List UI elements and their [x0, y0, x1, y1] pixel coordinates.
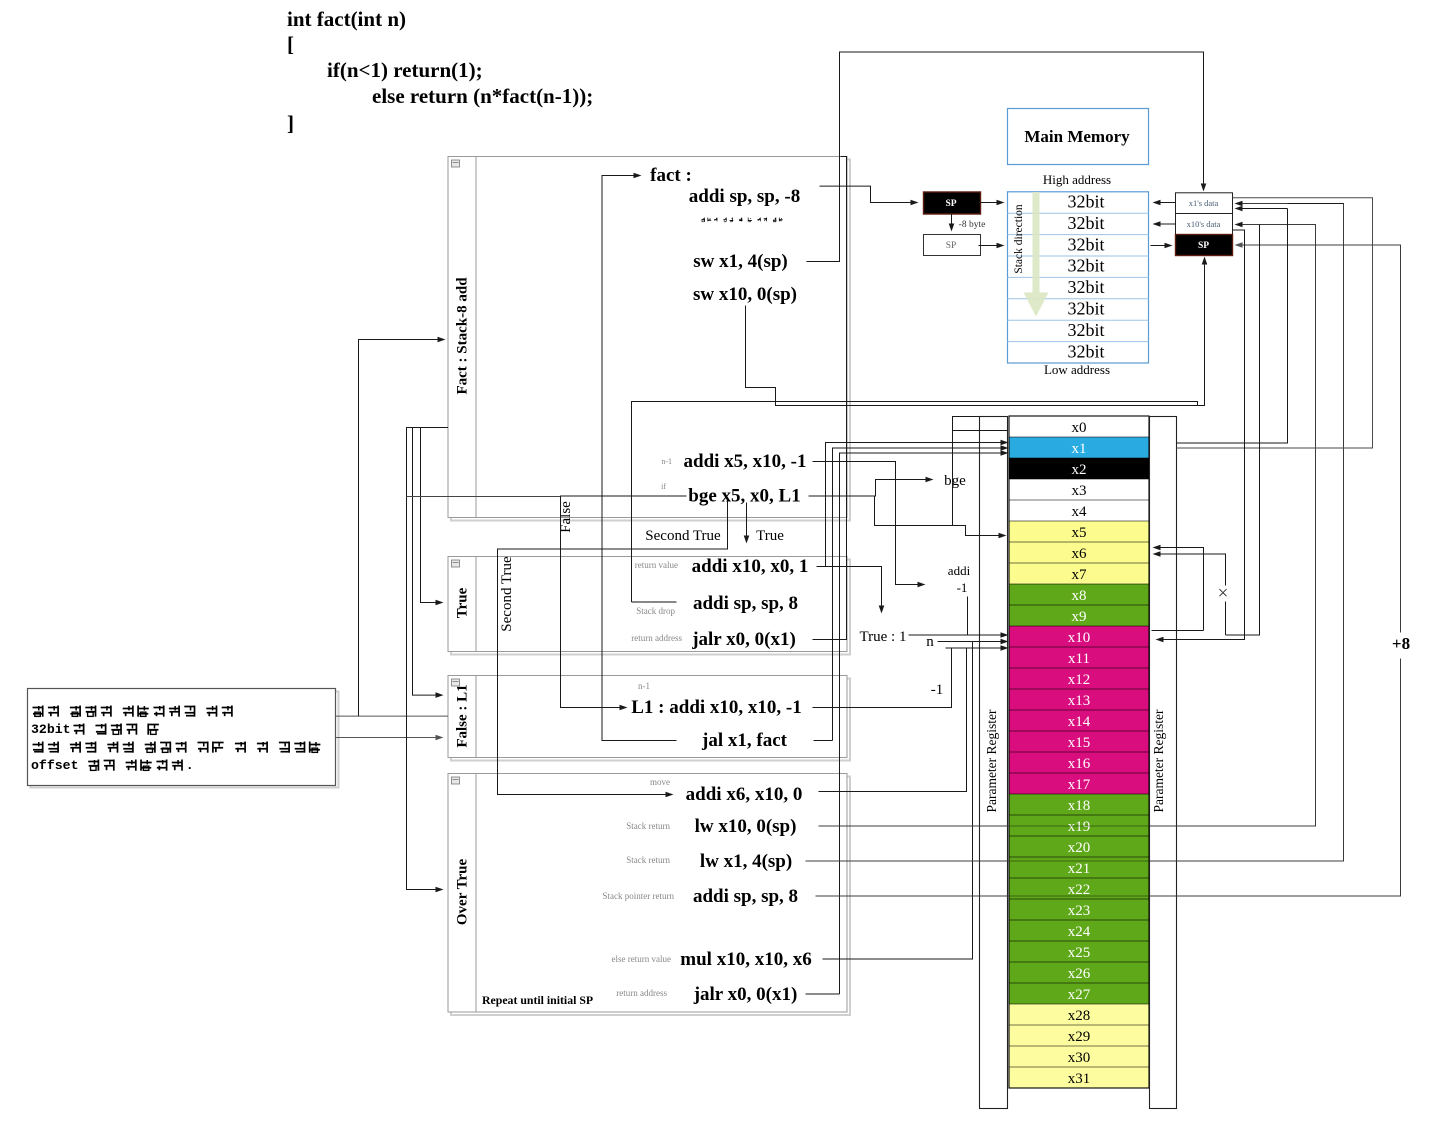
x10 data box — [1176, 214, 1233, 235]
svg-text:x10's data: x10's data — [1187, 219, 1221, 229]
box FalseL1 — [448, 676, 850, 761]
svg-text:x24: x24 — [1068, 924, 1091, 940]
main memory title box — [1008, 109, 1149, 165]
svg-text:sw x10, 0(sp): sw x10, 0(sp) — [693, 284, 797, 305]
svg-text:x25: x25 — [1068, 945, 1091, 961]
svg-text:if(n<1) return(1);: if(n<1) return(1); — [327, 58, 483, 82]
svg-text:x12: x12 — [1068, 672, 1091, 688]
svg-text:jalr x0, 0(x1): jalr x0, 0(x1) — [693, 984, 798, 1005]
svg-text:jalr x0, 0(x1): jalr x0, 0(x1) — [691, 629, 796, 650]
svg-text:Low address: Low address — [1044, 362, 1110, 377]
wire addi x5 to addi -1 — [813, 462, 922, 585]
svg-text:sw x1, 4(sp): sw x1, 4(sp) — [693, 251, 787, 272]
svg-text:True: True — [455, 587, 471, 618]
wire addi x10,x0,1 to True:1 — [817, 567, 882, 610]
svg-text:x8: x8 — [1072, 588, 1087, 604]
wire L1 addi -1 — [813, 648, 952, 708]
box OverTrue — [448, 774, 850, 1016]
svg-text:return address: return address — [616, 988, 667, 998]
svg-text:bge: bge — [944, 473, 966, 489]
svg-text:n-1: n-1 — [661, 457, 672, 466]
svg-text:Stack direction: Stack direction — [1013, 204, 1025, 274]
wire addi x6 to x10 line — [819, 648, 967, 792]
SP box (white) — [924, 235, 981, 256]
svg-text:x26: x26 — [1068, 966, 1091, 982]
svg-text:32bit: 32bit — [1067, 256, 1104, 276]
wire korean box to fact box — [336, 715, 449, 717]
svg-text:else return (n*fact(n-1));: else return (n*fact(n-1)); — [372, 84, 593, 108]
svg-text:x13: x13 — [1068, 693, 1091, 709]
register file table — [1009, 416, 1149, 1088]
parameter register column (right) — [1150, 417, 1177, 1109]
svg-text:Parameter Register: Parameter Register — [984, 709, 999, 813]
instructions in Over True box — [482, 777, 812, 1007]
svg-text:x28: x28 — [1068, 1008, 1091, 1024]
svg-text:32bit: 32bit — [1067, 299, 1104, 319]
svg-text:x4: x4 — [1072, 504, 1088, 520]
svg-text:Repeat until initial SP: Repeat until initial SP — [482, 993, 593, 1007]
svg-text:x22: x22 — [1068, 882, 1091, 898]
wire jal x1,fact to fact: — [602, 176, 677, 741]
wire bundle fact-left to lower boxes — [407, 428, 449, 890]
svg-text:addi x6, x10, 0: addi x6, x10, 0 — [686, 784, 803, 805]
svg-text:n-1: n-1 — [638, 681, 650, 691]
svg-text:x10: x10 — [1068, 630, 1091, 646]
instructions in False:L1 box — [631, 681, 802, 751]
wires right of data boxes — [1177, 198, 1373, 448]
svg-text:move: move — [650, 777, 670, 787]
wire x6 multiply loop — [1152, 630, 1204, 632]
svg-text:x11: x11 — [1068, 651, 1090, 667]
svg-text:x1's data: x1's data — [1189, 198, 1219, 208]
svg-text:True : 1: True : 1 — [860, 629, 907, 645]
svg-text:x21: x21 — [1068, 861, 1091, 877]
wire addi sp,sp,8 (True) to SP — [632, 601, 677, 603]
svg-text:+8: +8 — [1392, 634, 1410, 653]
wire jalr (True) up — [813, 157, 847, 640]
svg-text:32bit: 32bit — [31, 722, 71, 737]
svg-text:32bit: 32bit — [1067, 192, 1104, 212]
C source code block — [287, 7, 593, 135]
svg-text:x16: x16 — [1068, 756, 1091, 772]
wire jalr (OT) up — [806, 993, 840, 995]
wire Second True branch to addi x6 — [498, 502, 728, 795]
wire addi sp,sp,8 (OT) to SP +8 — [816, 895, 1010, 897]
SP register box (black, right) — [1176, 235, 1233, 256]
wire bge to bge label — [809, 480, 930, 497]
wire False branch to L1 — [407, 496, 561, 498]
svg-text:return address: return address — [631, 633, 682, 643]
svg-text:Second True: Second True — [499, 556, 515, 632]
svg-text:x20: x20 — [1068, 840, 1091, 856]
svg-text:Stack return: Stack return — [626, 821, 670, 831]
wire mem arrows — [979, 202, 1001, 204]
svg-text:-1: -1 — [931, 682, 944, 698]
svg-text:x29: x29 — [1068, 1029, 1091, 1045]
svg-text:mul x10, x10, x6: mul x10, x10, x6 — [680, 949, 811, 970]
svg-text:Main Memory: Main Memory — [1024, 127, 1130, 146]
svg-text:return value: return value — [635, 560, 678, 570]
svg-text:jal x1, fact: jal x1, fact — [701, 730, 788, 751]
wire lw x1 to x1 data — [806, 860, 1010, 862]
svg-text:32bit: 32bit — [1067, 320, 1104, 340]
box True — [448, 557, 850, 655]
svg-text:SP: SP — [946, 241, 957, 251]
svg-text:n: n — [926, 634, 934, 650]
svg-text:x5: x5 — [1072, 525, 1087, 541]
svg-text:Stack drop: Stack drop — [636, 606, 675, 616]
svg-text:32bit: 32bit — [1067, 341, 1104, 361]
wire mul to n line — [823, 642, 973, 960]
svg-text:32bit: 32bit — [1067, 277, 1104, 297]
svg-text:x17: x17 — [1068, 777, 1091, 793]
svg-text:x15: x15 — [1068, 735, 1091, 751]
svg-text:int fact(int n): int fact(int n) — [287, 7, 406, 31]
svg-text:else return value: else return value — [612, 954, 671, 964]
instructions in True box — [631, 556, 808, 650]
x1 data box — [1176, 193, 1233, 214]
svg-text:x18: x18 — [1068, 798, 1091, 814]
svg-text:[: [ — [287, 32, 294, 56]
svg-text:SP: SP — [1198, 241, 1209, 251]
wire addi-1 drop — [967, 597, 969, 636]
svg-text:Fact : Stack-8 add: Fact : Stack-8 add — [455, 277, 471, 395]
svg-text:High address: High address — [1043, 172, 1111, 187]
svg-text:]: ] — [287, 111, 294, 135]
svg-text:.: . — [186, 758, 194, 773]
wire sw x10,0(sp) to SP(right) — [746, 262, 1205, 406]
svg-text:-8 byte: -8 byte — [959, 220, 986, 230]
svg-text:lw x10, 0(sp): lw x10, 0(sp) — [695, 816, 797, 837]
svg-text:False : L1: False : L1 — [455, 684, 471, 747]
wire bundle to x1 — [826, 443, 1003, 567]
instructions in Fact box — [650, 165, 806, 507]
svg-text:x14: x14 — [1068, 714, 1091, 730]
korean note box — [28, 689, 339, 788]
svg-text:x3: x3 — [1072, 483, 1087, 499]
wire bge loop to x0/x5 — [875, 496, 1003, 536]
svg-text:x23: x23 — [1068, 903, 1091, 919]
svg-text:L1 : addi x10, x10, -1: L1 : addi x10, x10, -1 — [631, 697, 802, 718]
svg-text:Second True: Second True — [645, 528, 721, 544]
svg-text:32bit: 32bit — [1067, 234, 1104, 254]
svg-text:if: if — [661, 482, 666, 491]
svg-text:addi sp, sp, 8: addi sp, sp, 8 — [693, 593, 798, 614]
svg-text:Stack pointer return: Stack pointer return — [603, 891, 675, 901]
wire sw x1,4(sp) to x1 data box — [807, 52, 1204, 262]
svg-text:Over True: Over True — [455, 859, 471, 926]
svg-text:x30: x30 — [1068, 1050, 1091, 1066]
memory table — [1008, 192, 1149, 364]
svg-text:x27: x27 — [1068, 987, 1091, 1003]
wire lw x10 to x10 data — [819, 825, 1010, 827]
stack direction arrow — [1024, 192, 1049, 317]
svg-text:-1: -1 — [957, 580, 968, 595]
svg-text:addi: addi — [948, 563, 971, 578]
svg-text:addi x10, x0, 1: addi x10, x0, 1 — [692, 556, 809, 577]
wire korean box to False L1 box — [336, 737, 440, 739]
svg-text:x2: x2 — [1072, 462, 1087, 478]
svg-text:Stack return: Stack return — [626, 855, 670, 865]
svg-text:Parameter Register: Parameter Register — [1151, 709, 1166, 813]
svg-text:offset: offset — [31, 758, 78, 773]
wire True branch arrow — [746, 503, 748, 540]
svg-text:addi sp, sp, -8: addi sp, sp, -8 — [689, 186, 800, 207]
wire jal x1 right — [814, 740, 833, 742]
wire addi sp,sp,-8 to SP — [820, 186, 915, 202]
svg-text:32bit: 32bit — [1067, 213, 1104, 233]
svg-text:addi sp, sp, 8: addi sp, sp, 8 — [693, 886, 798, 907]
svg-text:x1: x1 — [1072, 441, 1087, 457]
svg-text:SP: SP — [945, 199, 956, 209]
SP register box (black, left) — [924, 192, 981, 214]
svg-text:lw x1, 4(sp): lw x1, 4(sp) — [700, 851, 792, 872]
svg-text:fact :: fact : — [650, 165, 692, 186]
wires True:1 / n / -1 into x10 — [909, 634, 1003, 636]
svg-text:x19: x19 — [1068, 819, 1091, 835]
svg-text:True: True — [756, 528, 784, 544]
svg-text:x7: x7 — [1072, 567, 1088, 583]
box Fact — [448, 157, 850, 521]
svg-text:x9: x9 — [1072, 609, 1087, 625]
svg-text:×: × — [1218, 583, 1229, 604]
svg-text:x0: x0 — [1072, 420, 1087, 436]
parameter register column (left) — [980, 417, 1008, 1109]
svg-text:x6: x6 — [1072, 546, 1088, 562]
svg-text:addi x5, x10, -1: addi x5, x10, -1 — [684, 451, 807, 472]
svg-text:bge x5, x0, L1: bge x5, x0, L1 — [688, 486, 800, 507]
svg-text:x31: x31 — [1068, 1071, 1091, 1087]
